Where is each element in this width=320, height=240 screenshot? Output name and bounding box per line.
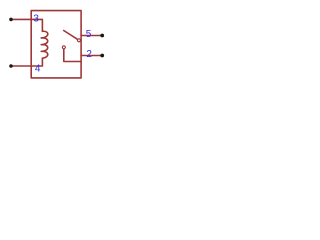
- svg-text:2: 2: [86, 49, 92, 60]
- svg-text:4: 4: [35, 63, 41, 74]
- wire pin 3: [11, 19, 42, 31]
- svg-text:3: 3: [33, 14, 39, 25]
- contact circle NO: [77, 39, 80, 42]
- wire contact to box edge: [64, 49, 81, 61]
- pin 3 terminal dot: [9, 18, 13, 22]
- pin 4 terminal dot: [9, 64, 13, 68]
- wire pin 5: [81, 35, 102, 37]
- wire pin 2: [81, 55, 102, 57]
- wire pin 4: [11, 58, 42, 66]
- coil L1: [41, 31, 48, 58]
- pin 5 terminal dot: [100, 34, 104, 38]
- pin 2 terminal dot: [100, 54, 104, 58]
- relay body box RL1: [31, 11, 81, 78]
- contact circle NC: [62, 46, 65, 49]
- switch lever: [64, 31, 78, 40]
- svg-text:5: 5: [86, 29, 92, 40]
